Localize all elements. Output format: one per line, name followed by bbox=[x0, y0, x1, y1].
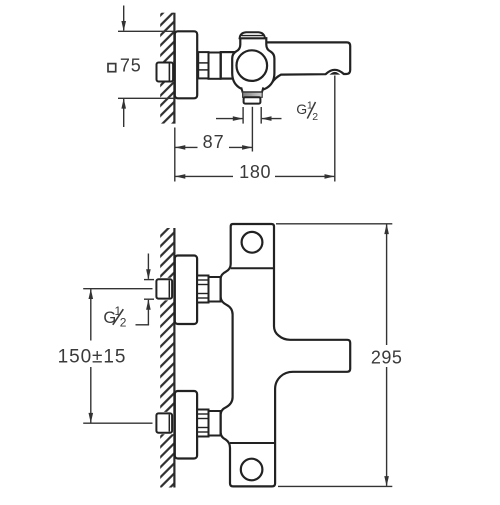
svg-text:75: 75 bbox=[120, 56, 142, 76]
wall hatch (front view, above top nut) bbox=[160, 228, 174, 278]
G1/2 extension line left (top view) bbox=[242, 107, 244, 124]
dimension 150±15 line lower segment with arrow bbox=[90, 367, 92, 423]
top inlet hex nut (front view) bbox=[197, 276, 208, 303]
bottom block separator line bbox=[230, 442, 275, 444]
inlet nut face line (top view) bbox=[168, 64, 170, 81]
spout (top view) bbox=[262, 42, 350, 82]
svg-text:150±15: 150±15 bbox=[58, 347, 127, 368]
dimension 180 extension line right (from spout) bbox=[334, 76, 336, 182]
top wall plate (front view) bbox=[175, 256, 197, 325]
collar below knob (top view) bbox=[241, 87, 263, 92]
dimension 295 line lower segment with arrow bbox=[386, 367, 388, 486]
dimension 150±15 line upper segment with arrow bbox=[90, 289, 92, 340]
bottom circle (front view) bbox=[241, 459, 263, 481]
dimension 150±15 extension line bottom bbox=[83, 422, 152, 424]
wall hatch (top view, above inlet nut) bbox=[160, 13, 174, 62]
G1/2 left arrow (top view) bbox=[216, 118, 243, 120]
G1/2 upper leader arrow (front view) bbox=[147, 254, 149, 279]
bottom nut (front view, in wall) bbox=[156, 413, 172, 432]
svg-text:180: 180 bbox=[239, 162, 271, 182]
svg-text:2: 2 bbox=[120, 315, 127, 329]
dimension 150±15 extension line top bbox=[83, 288, 152, 290]
dimension 180 line and arrows bbox=[175, 175, 233, 177]
wall hatch (top view, below inlet nut) bbox=[160, 82, 174, 124]
G1/2 extension line right (top view) bbox=[260, 107, 262, 124]
gray band (top view) bbox=[243, 92, 263, 97]
dimension 295 line upper segment with arrow bbox=[386, 224, 388, 345]
dimension 87 line and arrows bbox=[175, 146, 197, 148]
svg-text:G: G bbox=[296, 101, 307, 117]
wall face line (front view) bbox=[173, 228, 175, 488]
tick at nut bottom edge bbox=[144, 298, 154, 300]
dimension 75 extension line bottom bbox=[118, 97, 175, 99]
dimension 295 extension line top bbox=[276, 223, 392, 225]
dimension 87 extension line left bbox=[174, 128, 176, 182]
bottom inlet sleeve (front view) bbox=[209, 411, 221, 436]
neck body behind knob (top view) bbox=[221, 52, 234, 79]
G1/2 lower leader arrow (front view) bbox=[147, 300, 149, 325]
square symbol of □75 bbox=[108, 64, 116, 72]
svg-text:87: 87 bbox=[203, 132, 225, 152]
dimension 75 upper arrow bbox=[123, 6, 125, 31]
wall plate / escutcheon (top view) bbox=[175, 31, 197, 98]
wall face line (top view) bbox=[173, 13, 175, 124]
dimension 295 extension line bottom bbox=[278, 485, 392, 487]
knob outer body (top view) bbox=[232, 38, 274, 90]
top circle (diverter, front view) bbox=[242, 232, 263, 253]
centre line below nipple (top view) bbox=[251, 107, 253, 152]
inlet nut (top view, in wall) bbox=[157, 63, 174, 82]
dimension 75 lower arrow bbox=[123, 99, 125, 127]
outlet nipple G1/2 (top view) bbox=[244, 97, 261, 103]
faucet body outline (front view) bbox=[221, 224, 351, 486]
G1/2 right arrow (top view) bbox=[262, 118, 282, 120]
wall hatch (front view, between nuts) bbox=[160, 300, 174, 412]
aerator notch under spout bbox=[332, 73, 339, 74]
svg-text:295: 295 bbox=[371, 348, 403, 368]
svg-text:2: 2 bbox=[312, 111, 318, 123]
wall hatch (front view, below bottom nut) bbox=[160, 434, 174, 487]
hex nut of valve (top view) bbox=[198, 52, 208, 78]
dimension 75 extension line top bbox=[118, 30, 175, 32]
sleeve ring (top view) bbox=[209, 53, 221, 79]
tick at nut top edge bbox=[144, 279, 154, 281]
bottom wall plate (front view) bbox=[175, 391, 197, 459]
top nut (front view, in wall) bbox=[156, 279, 172, 298]
knob cap (top view) bbox=[240, 32, 265, 38]
knob inner circle (top view) bbox=[237, 50, 268, 81]
top block separator line bbox=[231, 267, 274, 269]
bottom inlet hex nut (front view) bbox=[197, 410, 208, 437]
top inlet sleeve (front view) bbox=[209, 277, 221, 302]
